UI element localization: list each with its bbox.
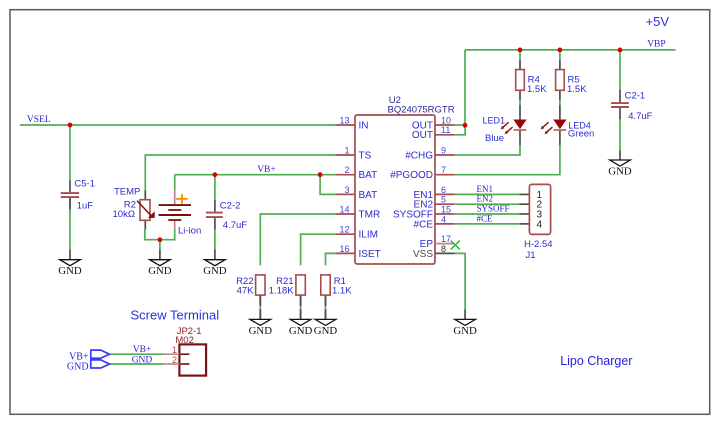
svg-text:1uF: 1uF [77,201,94,212]
svg-text:C2-1: C2-1 [625,90,646,101]
svg-text:47K: 47K [237,285,255,296]
svg-text:H-2.54: H-2.54 [524,239,553,250]
svg-text:2: 2 [172,355,177,365]
svg-text:GND: GND [67,361,89,372]
svg-text:6: 6 [441,185,446,195]
svg-text:VSS: VSS [413,249,433,260]
svg-text:ILIM: ILIM [359,230,378,241]
svg-text:SYSOFF: SYSOFF [477,204,510,214]
svg-text:14: 14 [339,204,349,214]
svg-text:#PGOOD: #PGOOD [390,170,433,181]
svg-text:BQ24075RGTR: BQ24075RGTR [388,105,455,116]
svg-text:4.7uF: 4.7uF [628,111,652,122]
svg-text:12: 12 [339,225,349,235]
svg-text:13: 13 [339,115,349,125]
svg-text:9: 9 [441,145,446,155]
svg-text:2: 2 [344,165,349,175]
svg-text:11: 11 [441,125,450,135]
svg-text:C2-2: C2-2 [220,201,241,212]
svg-text:1.1K: 1.1K [332,285,352,296]
svg-text:TS: TS [359,150,372,161]
svg-text:17: 17 [441,234,451,244]
svg-text:OUT: OUT [412,130,433,141]
svg-text:1: 1 [172,345,177,355]
svg-text:TMR: TMR [359,209,381,220]
svg-text:GND: GND [289,325,313,337]
svg-text:#CE: #CE [414,219,434,230]
svg-text:7: 7 [441,165,446,175]
svg-text:4: 4 [441,214,446,224]
svg-text:VB+: VB+ [133,345,152,355]
svg-text:Blue: Blue [485,133,504,144]
svg-text:Lipo Charger: Lipo Charger [560,354,632,368]
svg-text:3: 3 [344,185,349,195]
svg-text:#CHG: #CHG [405,150,433,161]
svg-text:Green: Green [568,129,594,140]
svg-text:LED1: LED1 [483,116,506,126]
svg-text:10kΩ: 10kΩ [113,209,135,220]
svg-text:5: 5 [441,195,446,205]
svg-text:GND: GND [453,325,477,337]
svg-text:4.7uF: 4.7uF [223,220,247,231]
svg-text:GND: GND [203,265,227,277]
svg-text:1: 1 [344,145,349,155]
svg-text:GND: GND [249,325,273,337]
svg-text:+5V: +5V [646,14,670,29]
svg-text:8: 8 [441,244,446,254]
svg-text:EN2: EN2 [477,194,494,204]
svg-text:Screw Terminal: Screw Terminal [131,308,220,323]
svg-text:#CE: #CE [477,213,494,223]
svg-text:BAT: BAT [359,170,378,181]
svg-text:TEMP: TEMP [114,187,140,198]
svg-text:ISET: ISET [359,249,381,260]
svg-text:4: 4 [537,219,543,230]
svg-text:1.5K: 1.5K [527,84,547,95]
svg-text:GND: GND [132,355,153,365]
svg-text:Li-ion: Li-ion [178,226,201,237]
svg-text:C5-1: C5-1 [74,178,95,189]
svg-text:GND: GND [608,165,632,177]
svg-text:GND: GND [58,265,82,277]
svg-text:10: 10 [441,115,451,125]
svg-text:GND: GND [314,325,338,337]
svg-text:VSEL: VSEL [27,115,51,125]
svg-text:GND: GND [148,265,172,277]
svg-text:EN1: EN1 [477,184,494,194]
svg-text:1.18K: 1.18K [269,285,294,296]
svg-text:IN: IN [359,120,369,131]
svg-text:15: 15 [441,204,451,214]
svg-text:VBP: VBP [647,40,665,50]
svg-text:BAT: BAT [359,190,378,201]
svg-text:1.5K: 1.5K [567,84,587,95]
svg-text:16: 16 [339,244,349,254]
svg-text:J1: J1 [526,250,536,261]
svg-text:VB+: VB+ [257,165,276,175]
